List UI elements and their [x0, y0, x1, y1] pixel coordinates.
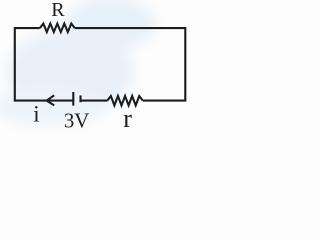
svg-text:3V: 3V [64, 108, 90, 132]
resistor r [107, 96, 143, 105]
svg-text:R: R [51, 0, 65, 21]
svg-text:i: i [33, 102, 39, 127]
wire right run: top-right segment, right side, bottom-right segment (R right lead to resistor r right lead) [75, 28, 186, 101]
battery 3V long plate (+) [72, 92, 74, 106]
wire left run: top-left segment, left side, bottom-left segment (R left lead to battery + plate) [15, 28, 73, 101]
battery 3V short plate (-) [79, 95, 81, 102]
resistor R [40, 24, 75, 32]
wire: battery - plate to resistor r left lead [81, 100, 108, 102]
current direction arrow (points left) [47, 95, 55, 105]
svg-text:r: r [123, 104, 132, 133]
